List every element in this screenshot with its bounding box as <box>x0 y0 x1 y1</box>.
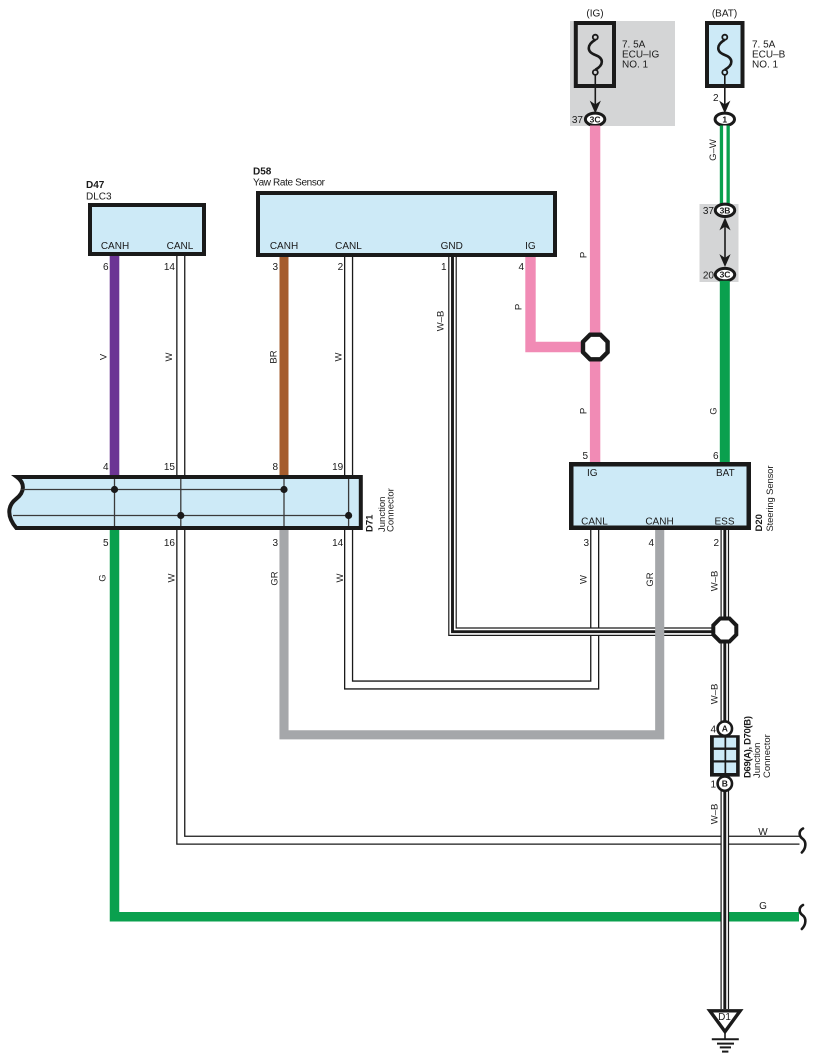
svg-text:5: 5 <box>582 451 588 462</box>
svg-text:4: 4 <box>710 725 716 736</box>
svg-text:G–W: G–W <box>708 139 719 161</box>
svg-text:CANH: CANH <box>101 241 129 252</box>
svg-text:1: 1 <box>441 262 447 273</box>
svg-text:Yaw Rate Sensor: Yaw Rate Sensor <box>253 178 326 189</box>
svg-text:Connector: Connector <box>386 488 397 532</box>
svg-text:8: 8 <box>272 462 278 473</box>
svg-text:GR: GR <box>270 571 281 585</box>
svg-text:4: 4 <box>103 462 109 473</box>
svg-text:IG: IG <box>587 468 598 479</box>
svg-text:1: 1 <box>710 780 716 791</box>
svg-text:3B: 3B <box>720 205 731 215</box>
svg-text:2: 2 <box>713 93 719 104</box>
svg-text:CANL: CANL <box>581 517 608 528</box>
svg-text:D71: D71 <box>365 514 376 532</box>
svg-text:D20: D20 <box>754 514 765 531</box>
svg-text:4: 4 <box>648 538 654 549</box>
svg-text:6: 6 <box>713 451 719 462</box>
svg-text:14: 14 <box>164 262 176 273</box>
svg-text:Connector: Connector <box>762 734 773 778</box>
svg-text:W: W <box>167 573 178 582</box>
svg-text:Steering Sensor: Steering Sensor <box>765 466 776 532</box>
svg-text:CANL: CANL <box>167 241 194 252</box>
svg-text:3: 3 <box>583 538 589 549</box>
svg-text:G: G <box>709 407 720 414</box>
svg-text:DLC3: DLC3 <box>86 192 112 203</box>
svg-text:CANH: CANH <box>270 241 298 252</box>
svg-text:14: 14 <box>332 538 344 549</box>
svg-text:W: W <box>579 575 590 584</box>
svg-text:W–B: W–B <box>709 571 720 592</box>
svg-text:5: 5 <box>103 538 109 549</box>
svg-text:D1: D1 <box>718 1012 731 1023</box>
svg-text:W: W <box>758 827 768 838</box>
svg-text:D47: D47 <box>86 180 105 191</box>
svg-text:20: 20 <box>703 270 715 281</box>
svg-text:NO. 1: NO. 1 <box>752 60 779 71</box>
svg-text:3C: 3C <box>590 114 601 124</box>
svg-text:W: W <box>334 352 345 361</box>
svg-text:W–B: W–B <box>436 311 447 332</box>
svg-text:P: P <box>579 408 590 414</box>
svg-text:W–B: W–B <box>709 684 720 705</box>
svg-text:2: 2 <box>338 262 344 273</box>
svg-text:W: W <box>335 573 346 582</box>
svg-text:P: P <box>514 304 525 310</box>
svg-text:G: G <box>759 901 767 912</box>
svg-text:(BAT): (BAT) <box>712 9 737 20</box>
svg-text:2: 2 <box>713 538 719 549</box>
svg-text:CANH: CANH <box>645 517 673 528</box>
svg-text:A: A <box>722 724 728 734</box>
svg-text:4: 4 <box>518 262 524 273</box>
svg-text:19: 19 <box>332 462 344 473</box>
svg-text:BAT: BAT <box>716 468 735 479</box>
svg-text:GR: GR <box>645 572 656 586</box>
svg-text:3: 3 <box>272 538 278 549</box>
svg-text:(IG): (IG) <box>586 9 603 20</box>
svg-text:16: 16 <box>164 538 176 549</box>
svg-text:3: 3 <box>272 262 278 273</box>
svg-text:B: B <box>722 779 728 789</box>
svg-text:W: W <box>164 352 175 361</box>
svg-text:BR: BR <box>269 350 280 363</box>
svg-text:D58: D58 <box>253 167 272 178</box>
svg-text:V: V <box>99 353 110 360</box>
svg-text:1: 1 <box>722 114 727 124</box>
svg-text:3C: 3C <box>720 270 731 280</box>
svg-text:37: 37 <box>703 206 715 217</box>
svg-text:P: P <box>579 252 590 258</box>
svg-text:CANL: CANL <box>335 241 362 252</box>
svg-text:W–B: W–B <box>709 804 720 825</box>
svg-text:ESS: ESS <box>714 517 734 528</box>
svg-text:6: 6 <box>103 262 109 273</box>
svg-text:G: G <box>98 574 109 581</box>
svg-text:15: 15 <box>164 462 176 473</box>
svg-text:NO. 1: NO. 1 <box>622 60 649 71</box>
svg-text:IG: IG <box>525 241 536 252</box>
svg-text:37: 37 <box>572 115 584 126</box>
svg-text:GND: GND <box>441 241 463 252</box>
